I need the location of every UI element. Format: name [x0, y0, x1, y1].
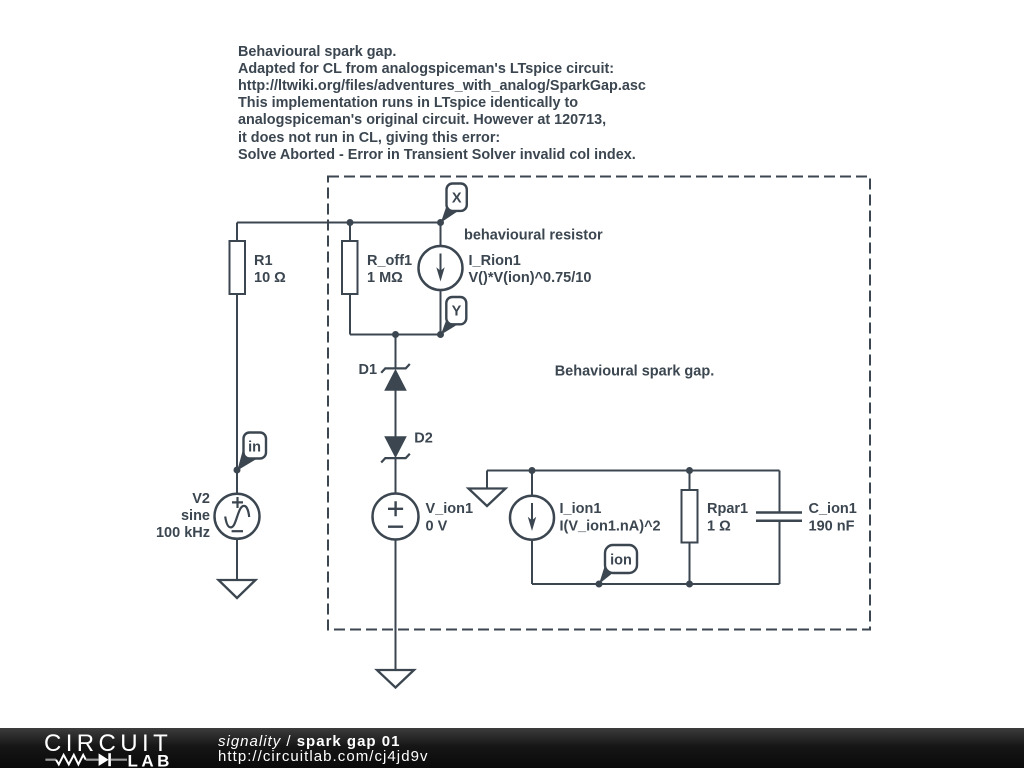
- voltage source V2: [156, 491, 260, 541]
- svg-text:I(V_ion1.nA)^2: I(V_ion1.nA)^2: [560, 519, 661, 535]
- svg-text:100 kHz: 100 kHz: [156, 525, 210, 541]
- wire R_off1 top stub: [349, 223, 351, 242]
- wire I_Rion1 top stub: [440, 223, 442, 247]
- svg-text:ion: ion: [610, 553, 632, 569]
- junction dot bottom Y: [437, 331, 444, 338]
- ground below V_ion1: [377, 670, 414, 688]
- capacitor C_ion1: [756, 501, 857, 535]
- junction dot I_ion1 top: [529, 467, 536, 474]
- wire right bottom net: [532, 583, 780, 585]
- wire I_ion1 top stub: [531, 471, 533, 497]
- junction dot Rpar1 bottom: [686, 581, 693, 588]
- junction dot bottom D1: [392, 331, 399, 338]
- wire top net from R1 to X node: [237, 222, 441, 224]
- wire right top net: [487, 470, 780, 472]
- node flag ion: [599, 545, 637, 584]
- wire V2 to ground: [236, 539, 238, 581]
- current source I_Rion1: [419, 246, 592, 290]
- svg-text:in: in: [248, 440, 261, 456]
- node flag Y: [441, 297, 467, 335]
- svg-text:10 Ω: 10 Ω: [254, 270, 286, 286]
- voltage source V_ion1: [373, 494, 474, 540]
- zener diode D2: [381, 431, 433, 463]
- resistor R_off1: [342, 241, 412, 294]
- wire R_off1 bottom stub: [349, 294, 351, 335]
- svg-text:D2: D2: [414, 431, 433, 447]
- wire D2 to V_ion1: [395, 458, 397, 494]
- svg-text:1 MΩ: 1 MΩ: [367, 270, 403, 286]
- svg-text:Rpar1: Rpar1: [707, 501, 748, 517]
- footer bar: [0, 728, 1024, 768]
- current source I_ion1: [510, 496, 661, 540]
- zener diode D1: [359, 362, 410, 391]
- junction dot top X: [437, 219, 444, 226]
- wire Rpar1 bottom stub: [689, 543, 691, 585]
- svg-text:I_ion1: I_ion1: [560, 501, 602, 517]
- node flag X: [441, 184, 467, 223]
- dashed subcircuit box: [328, 177, 870, 630]
- svg-text:V2: V2: [192, 491, 210, 507]
- svg-text:0 V: 0 V: [426, 519, 448, 535]
- svg-text:LAB: LAB: [128, 752, 173, 768]
- svg-text:sine: sine: [181, 508, 210, 524]
- ground right small: [469, 489, 506, 507]
- svg-text:Behavioural spark gap.: Behavioural spark gap.: [555, 364, 715, 380]
- node flag in: [237, 433, 266, 471]
- svg-text:V_ion1: V_ion1: [426, 501, 474, 517]
- logo resistor-diode squiggle: [45, 759, 56, 761]
- junction dot ion node: [596, 581, 603, 588]
- ground below V2: [219, 580, 256, 598]
- CircuitLab logo wordmark: [0, 728, 200, 768]
- footer url text: [218, 748, 429, 765]
- wire bottom net R_off1 to Y: [350, 334, 441, 336]
- junction dot top R_off1: [347, 219, 354, 226]
- wire D1 to D2: [395, 391, 397, 437]
- wire I_Rion1 bottom stub: [440, 290, 442, 335]
- wire node to D1: [395, 335, 397, 369]
- svg-text:R_off1: R_off1: [367, 253, 412, 269]
- wire ground stub right: [486, 471, 488, 489]
- svg-text:Y: Y: [452, 303, 462, 319]
- wire V_ion1 to ground: [395, 539, 397, 670]
- resistor R1: [230, 241, 287, 294]
- wire R1 top stub: [236, 223, 238, 242]
- wire R1 bottom to V2: [236, 294, 238, 495]
- label behavioural resistor: [464, 228, 603, 244]
- resistor Rpar1: [682, 490, 749, 543]
- wire C_ion1 bottom stub: [779, 521, 781, 584]
- footer title text: [218, 733, 400, 750]
- junction dot in node: [234, 467, 241, 474]
- svg-text:V()*V(ion)^0.75/10: V()*V(ion)^0.75/10: [469, 270, 592, 286]
- svg-text:I_Rion1: I_Rion1: [469, 253, 521, 269]
- schematic annotation text block: [238, 44, 646, 164]
- svg-text:R1: R1: [254, 253, 273, 269]
- junction dot Rpar1 top: [686, 467, 693, 474]
- svg-text:C_ion1: C_ion1: [809, 501, 857, 517]
- svg-text:X: X: [452, 191, 462, 207]
- svg-text:D1: D1: [359, 362, 378, 378]
- wire Rpar1 top stub: [689, 471, 691, 491]
- svg-text:190 nF: 190 nF: [809, 519, 855, 535]
- svg-text:behavioural resistor: behavioural resistor: [464, 228, 603, 244]
- label Behavioural spark gap.: [555, 364, 715, 380]
- wire I_ion1 bottom stub: [531, 540, 533, 585]
- svg-text:1 Ω: 1 Ω: [707, 519, 731, 535]
- wire C_ion1 top stub: [779, 471, 781, 513]
